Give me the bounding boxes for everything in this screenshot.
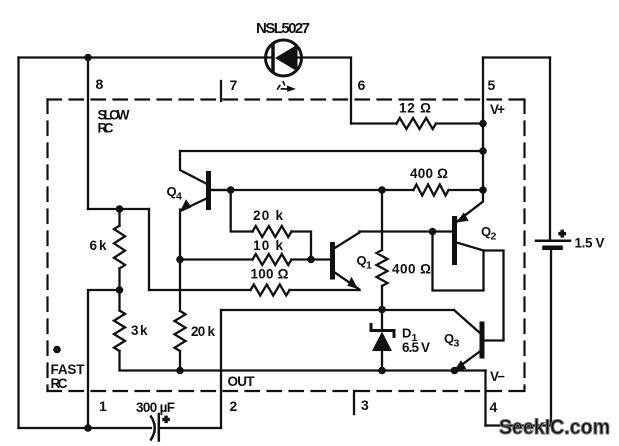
wire 6k bottom lead (118, 269, 120, 311)
wire zener bottom lead (381, 351, 383, 371)
wire 400-ohm right lead to V+ (449, 189, 484, 191)
junction zener top (378, 306, 386, 314)
wire 6k top lead (118, 209, 120, 226)
junction 20k bottom rail (176, 367, 184, 375)
svg-text:4: 4 (176, 191, 182, 203)
wire inner top horizontal (180, 150, 483, 152)
junction 6k bottom (116, 286, 124, 294)
svg-text:20 k: 20 k (253, 208, 283, 223)
wire Q2 collector to Q3 base (484, 251, 504, 341)
junction Q2 base (429, 228, 437, 236)
svg-text:400 Ω: 400 Ω (392, 262, 431, 277)
svg-text:300 µF: 300 µF (136, 400, 175, 415)
capacitor plus sign (163, 414, 169, 426)
junction Q4 base (227, 186, 235, 194)
junction bottom wire pin 1 (84, 424, 92, 432)
pin 7 stub (220, 81, 222, 101)
wire pin 4 / V- vertical (484, 371, 486, 426)
zener diode D1 (371, 325, 394, 352)
transistor Q4 (180, 151, 231, 213)
wire outer left vertical (17, 58, 19, 429)
svg-text:SeekIC.com: SeekIC.com (499, 416, 610, 439)
svg-text:3: 3 (454, 338, 460, 350)
wire 400-ohm vertical top lead (381, 190, 383, 250)
wire 20k drop from Q4 base (231, 190, 253, 232)
battery BT1 1.5V (536, 241, 570, 248)
svg-text:1.5 V: 1.5 V (575, 236, 605, 251)
wire 20k right lead to 10k junction (292, 232, 312, 260)
junction 400 ohm top (378, 186, 386, 194)
svg-text:+: + (163, 414, 169, 426)
fast rc bullet (53, 346, 61, 354)
capacitor 300uF (151, 414, 159, 441)
svg-text:6 k: 6 k (90, 238, 107, 253)
IC package dashed outline (48, 100, 525, 392)
wire 400-ohm vertical bottom lead (381, 286, 383, 310)
wire 20k vertical bottom lead (179, 351, 181, 371)
svg-text:5: 5 (488, 77, 496, 93)
resistor 12 ohm (397, 118, 437, 129)
wire pin 1 vertical (88, 290, 120, 428)
resistor 20 k vertical (175, 311, 186, 351)
wire Q2 collector-base loop (433, 232, 484, 291)
resistor 100 ohm (251, 285, 290, 296)
wire top horizontal to LED (19, 56, 273, 58)
wire node slow-rc horizontal (88, 208, 149, 210)
junction V+ 12 ohm (479, 120, 487, 128)
wire 10k left lead (180, 258, 253, 260)
svg-text:100 Ω: 100 Ω (251, 267, 289, 282)
wire capacitor to pin 2 (161, 427, 222, 429)
wire 100-ohm left lead (149, 289, 251, 291)
wire Q1 collector to Q2 base (360, 230, 453, 232)
wire 10k right lead to Q1 base (292, 258, 331, 260)
svg-text:1: 1 (366, 260, 372, 272)
pin 3 stub (353, 391, 355, 414)
wire V- rail (120, 351, 486, 371)
svg-text:400 Ω: 400 Ω (410, 166, 448, 181)
wire 12 ohm right lead (436, 122, 483, 124)
resistor 3 k (114, 311, 125, 352)
LED light arrows (278, 82, 296, 92)
svg-text:12 Ω: 12 Ω (399, 101, 431, 116)
svg-text:2: 2 (230, 398, 238, 414)
svg-text:OUT: OUT (228, 374, 256, 389)
junction V+ 400 ohm (479, 186, 487, 194)
LED NSL5027 (266, 40, 302, 76)
svg-text:20 k: 20 k (191, 324, 215, 339)
wire pin 8 vertical (87, 58, 89, 210)
svg-text:7: 7 (230, 77, 238, 93)
resistor 10 k (253, 254, 292, 265)
wire battery bottom to pin 4 (486, 250, 552, 426)
junction 6k top (116, 205, 124, 213)
svg-text:V+: V+ (490, 102, 505, 117)
wire top right horizontal (483, 56, 550, 58)
svg-text:6: 6 (358, 77, 366, 93)
wire bottom left horizontal (19, 427, 152, 429)
svg-text:D: D (402, 326, 411, 341)
svg-text:+: + (559, 229, 565, 241)
svg-text:FAST: FAST (51, 362, 86, 377)
svg-text:RC: RC (98, 121, 114, 136)
svg-text:4: 4 (490, 399, 498, 415)
svg-text:6.5 V: 6.5 V (402, 340, 430, 355)
junction Q1 base (307, 256, 315, 264)
svg-text:10 k: 10 k (253, 238, 283, 253)
wire slow-rc corner vertical (148, 209, 150, 290)
svg-text:1: 1 (99, 398, 107, 414)
wire Q4 emitter vertical (179, 210, 181, 312)
transistor Q3 (454, 310, 482, 371)
watermark SeekIC.com (499, 416, 610, 439)
junction Q3 emitter rail (451, 367, 459, 375)
junction top wire pin 8 (84, 54, 92, 62)
junction zener bottom rail (378, 367, 386, 375)
wire LED to pin 6 drop (297, 58, 351, 124)
resistor 400 ohm vertical (377, 250, 388, 286)
wire zener top rail (221, 309, 454, 311)
svg-text:NSL5027: NSL5027 (256, 20, 310, 37)
svg-text:8: 8 (96, 76, 104, 92)
svg-text:V−: V− (490, 369, 505, 384)
svg-text:RC: RC (51, 376, 68, 391)
wire Q4 base rail y190 (211, 189, 414, 191)
junction V+ inner top (479, 147, 487, 155)
wire pin 5 / V+ vertical (482, 58, 484, 191)
wire pin 2 riser (220, 310, 222, 428)
wire battery top vertical (549, 58, 551, 240)
svg-text:3 k: 3 k (131, 323, 148, 338)
svg-text:2: 2 (491, 231, 497, 243)
svg-text:3: 3 (361, 397, 369, 413)
resistor 6 k (114, 226, 125, 269)
resistor 400 ohm top (414, 185, 449, 196)
resistor 20 k horizontal (253, 226, 292, 237)
transistor Q2 (455, 190, 484, 263)
wire 12 ohm left lead (351, 122, 397, 124)
wire zener top lead (381, 310, 383, 330)
transistor Q1 (333, 232, 360, 291)
battery plus sign (559, 229, 565, 241)
junction 10k left (176, 256, 184, 264)
wire 100-ohm right lead to Q1 emitter (290, 289, 360, 291)
